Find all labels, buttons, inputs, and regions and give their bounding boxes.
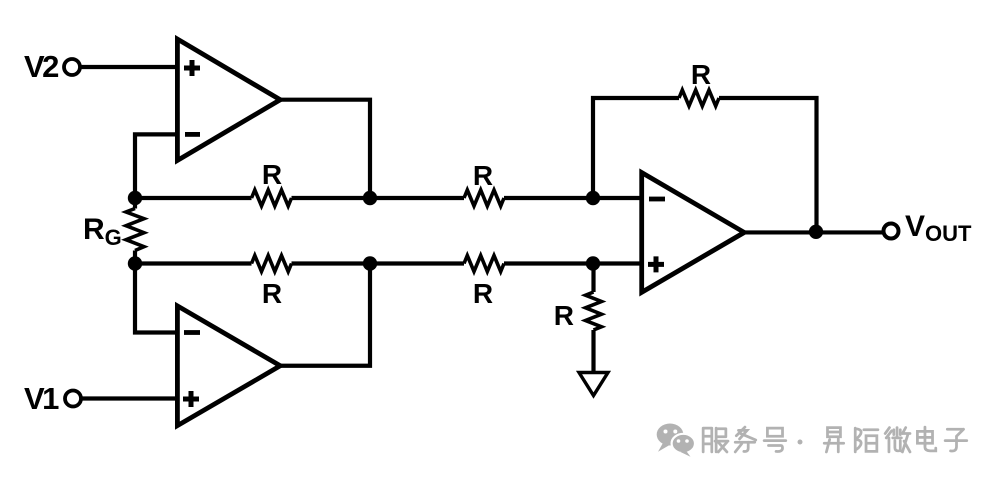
terminal VOUT: [884, 224, 899, 239]
wire V1 to U2 +: [81, 396, 178, 400]
wire U3 feedback right vertical: [719, 98, 817, 232]
resistor R row1 left: [252, 190, 292, 206]
resistor R feedback: [679, 90, 719, 106]
node row2 right: [586, 256, 600, 270]
op-amp U1: [175, 35, 285, 165]
wire U3 output: [741, 230, 883, 234]
svg-text:R: R: [691, 59, 711, 90]
resistor R row2 right: [464, 256, 504, 272]
svg-text:V1: V1: [24, 381, 59, 416]
glyph 服: [703, 428, 728, 452]
wire row2 segment a: [135, 261, 252, 265]
node row1 mid: [363, 191, 377, 205]
glyph 号: [764, 428, 786, 451]
node row2 mid: [363, 256, 377, 270]
wire U2 - feedback: [135, 264, 177, 333]
node row1 right: [586, 191, 600, 205]
svg-text:R: R: [473, 160, 493, 191]
wire row1 segment c: [504, 196, 640, 200]
wire U2 output: [277, 264, 370, 366]
node output: [809, 225, 823, 239]
watermark icon wechat: [657, 424, 695, 457]
resistor R row1 right: [464, 190, 504, 206]
glyph 昇: [824, 428, 843, 452]
resistor RG: [126, 198, 144, 264]
wire row2 segment c: [504, 261, 640, 265]
glyph 子: [945, 429, 967, 451]
glyph middle dot: [798, 440, 803, 445]
svg-text:R: R: [262, 278, 282, 309]
wire U3 feedback left vertical: [593, 98, 679, 198]
node row2 left: [128, 256, 142, 270]
glyph 电: [917, 427, 935, 451]
wire row2 segment b: [292, 261, 465, 265]
resistor R row2 left: [252, 256, 292, 272]
op-amp U3: [639, 168, 749, 296]
wire U1 output: [277, 100, 370, 198]
terminal V1: [65, 391, 81, 407]
resistor R to ground: [586, 264, 602, 373]
wire U1 - feedback: [135, 134, 177, 198]
op-amp U2: [175, 302, 285, 430]
svg-text:R: R: [473, 278, 493, 309]
svg-text:R: R: [554, 300, 574, 331]
terminal V2: [64, 59, 80, 75]
glyph 陌: [855, 428, 878, 452]
svg-text:V2: V2: [24, 49, 58, 84]
node row1 left: [128, 191, 142, 205]
svg-text:R: R: [262, 159, 282, 190]
ground: [579, 373, 608, 396]
wire V2 to U1 +: [80, 65, 178, 69]
wire row1 segment b: [292, 196, 465, 200]
wire row1 segment a: [135, 196, 252, 200]
glyph 微: [885, 428, 910, 452]
watermark text 服务号 · 昇陌微电子 (hand-drawn glyphs): [703, 427, 967, 452]
glyph 务: [735, 427, 756, 452]
